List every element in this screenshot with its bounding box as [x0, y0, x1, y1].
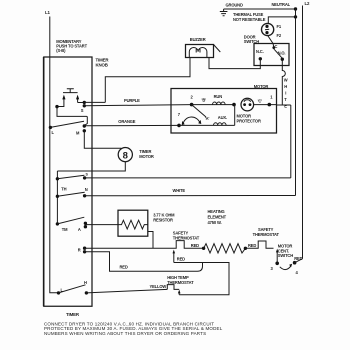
svg-text:I: I: [285, 91, 286, 96]
wire W1 drop: [290, 105, 292, 178]
wire neutral rail: [295, 9, 297, 196]
junction heater right: [244, 247, 247, 250]
high temp thermostat: [167, 285, 179, 290]
svg-text:L1: L1: [45, 10, 51, 15]
svg-text:YELLOW: YELLOW: [150, 284, 167, 289]
timer left bus: [56, 171, 58, 224]
resistor R 3.77K: [118, 210, 148, 236]
buzzer tick: [214, 45, 221, 53]
safety thermostat 2: [245, 241, 273, 248]
svg-text:8: 8: [123, 150, 128, 161]
wire yellow: [86, 289, 167, 293]
wire buzzer right leg: [209, 57, 260, 69]
wire A to resistor: [85, 224, 118, 226]
svg-text:GROUND: GROUND: [226, 3, 243, 8]
svg-text:ELEMENT: ELEMENT: [208, 214, 227, 219]
svg-text:W: W: [284, 78, 288, 83]
svg-text:(S-B): (S-B): [56, 48, 66, 53]
wire red R lower: [85, 252, 203, 271]
wire aux up: [234, 105, 236, 126]
wire motor1 to W1 drop: [277, 104, 291, 106]
junction run-aux: [232, 103, 236, 107]
wire buzzer left leg: [105, 57, 190, 102]
wire st1 arm to loop: [174, 263, 229, 295]
timer contact L-M: [49, 126, 52, 129]
wire timer motor bottom: [57, 162, 125, 171]
svg-text:NUMBERS WHEN WRITING ABOUT THI: NUMBERS WHEN WRITING ABOUT THIS DRYER OR…: [44, 331, 206, 336]
motor box: [171, 89, 277, 134]
motor protector: [241, 98, 254, 111]
wire neutral feed: [268, 17, 295, 24]
svg-text:L2: L2: [305, 1, 311, 6]
wire orange: [84, 124, 179, 126]
timer motor: [118, 148, 132, 162]
pin 3: [275, 262, 279, 266]
pin 4: [293, 261, 297, 265]
svg-text:RED: RED: [248, 243, 256, 248]
svg-text:MOTOR: MOTOR: [254, 84, 269, 89]
wire white: [85, 195, 296, 197]
wire 4 to L2: [295, 259, 303, 263]
wire red R to thermostat: [85, 247, 172, 249]
heating element: [204, 244, 246, 253]
aux winding: [179, 123, 235, 126]
svg-text:RUN: RUN: [214, 94, 223, 99]
push-to-start left contact: [57, 103, 64, 107]
svg-text:N: N: [85, 187, 88, 192]
svg-text:RED: RED: [120, 264, 128, 269]
door switch: [254, 44, 289, 66]
push-to-start switch S plunger: [63, 89, 78, 93]
ground: [220, 9, 228, 16]
thermal fuse: [262, 23, 274, 35]
timer contact TH: [56, 177, 59, 180]
door switch blade: [274, 49, 282, 58]
svg-text:'C': 'C': [258, 99, 263, 104]
svg-text:RED: RED: [177, 256, 185, 261]
junction heater left: [202, 247, 205, 250]
svg-text:'B': 'B': [202, 98, 207, 103]
junction neutral-fuse: [294, 15, 297, 18]
svg-text:TIMER: TIMER: [66, 312, 80, 317]
cent switch blade: [280, 266, 291, 270]
buzzer: [186, 45, 214, 58]
wire S top to buzzer riser: [84, 101, 105, 103]
svg-text:N.C.: N.C.: [256, 49, 264, 54]
motor start switch arc: [183, 117, 200, 124]
wire L2 rail: [302, 6, 304, 259]
svg-text:WHITE: WHITE: [173, 188, 186, 193]
wire ground to neutral rail: [224, 8, 296, 10]
svg-text:NOT RESETABLE: NOT RESETABLE: [233, 17, 266, 22]
junction neutral-ground: [294, 7, 297, 10]
timer contact R: [83, 247, 86, 250]
push-to-start S contact: [78, 102, 85, 104]
svg-text:NEUTRAL: NEUTRAL: [272, 2, 291, 7]
wire purple: [84, 105, 191, 106]
wire L1 bus: [50, 17, 59, 293]
safety thermostat 1: [172, 241, 204, 249]
svg-text:H: H: [284, 84, 287, 89]
timer contact N: [56, 195, 59, 198]
timer contact L-H: [57, 291, 60, 294]
svg-text:BUZZER: BUZZER: [190, 37, 206, 42]
svg-text:'A': 'A': [205, 116, 210, 121]
svg-text:SWITCH: SWITCH: [278, 253, 293, 258]
svg-text:4750 W.: 4750 W.: [208, 220, 222, 225]
timer box: [44, 57, 92, 306]
run winding: [192, 102, 234, 105]
svg-text:PURPLE: PURPLE: [124, 98, 140, 103]
svg-text:MOTOR: MOTOR: [139, 154, 154, 159]
motor cent switch arm: [276, 252, 278, 264]
wire M to timer motor: [84, 131, 121, 149]
wire W1: [85, 177, 291, 179]
wire resistor out: [148, 232, 153, 249]
svg-text:TM: TM: [62, 227, 68, 232]
svg-text:R: R: [78, 248, 81, 253]
svg-text:H: H: [84, 280, 87, 285]
wire protector to 1: [254, 104, 277, 106]
svg-text:KNOB: KNOB: [96, 62, 108, 67]
wire fuse to door switch: [268, 35, 274, 47]
svg-text:A: A: [78, 227, 81, 232]
svg-text:AUX.: AUX.: [218, 115, 227, 120]
svg-text:THERMOSTAT: THERMOSTAT: [173, 235, 200, 240]
svg-text:RESISTOR: RESISTOR: [153, 218, 173, 223]
svg-text:ORANGE: ORANGE: [118, 119, 135, 124]
svg-text:E: E: [284, 104, 287, 109]
high temp thermostat arm: [178, 293, 180, 295]
push-to-start arrows: [64, 99, 78, 104]
svg-text:RED: RED: [191, 243, 199, 248]
svg-text:TH: TH: [61, 186, 66, 191]
svg-text:RED: RED: [294, 256, 302, 261]
wire door N.O. white drop: [282, 59, 285, 105]
timer contact TM-A: [56, 222, 59, 225]
motor blade B: [192, 105, 206, 117]
svg-text:PROTECTOR: PROTECTOR: [237, 118, 261, 123]
svg-text:THERMOSTAT: THERMOSTAT: [253, 232, 280, 237]
svg-text:S: S: [81, 108, 84, 113]
wire S left drop: [57, 107, 87, 126]
